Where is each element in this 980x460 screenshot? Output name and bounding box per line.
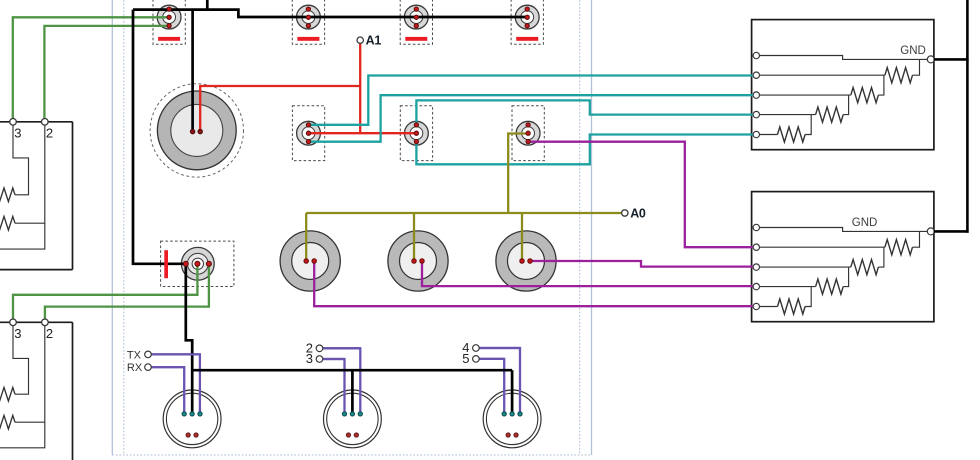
- svg-text:TX: TX: [127, 349, 142, 361]
- svg-text:GND: GND: [852, 217, 878, 229]
- svg-text:RX: RX: [127, 362, 143, 374]
- svg-text:2: 2: [46, 126, 53, 141]
- svg-text:3: 3: [306, 351, 313, 366]
- svg-text:A1: A1: [366, 34, 382, 48]
- svg-text:GND: GND: [900, 45, 926, 57]
- svg-text:3: 3: [14, 326, 21, 341]
- svg-text:2: 2: [46, 326, 53, 341]
- svg-text:A0: A0: [630, 206, 646, 220]
- svg-text:3: 3: [14, 126, 21, 141]
- svg-text:5: 5: [462, 351, 469, 366]
